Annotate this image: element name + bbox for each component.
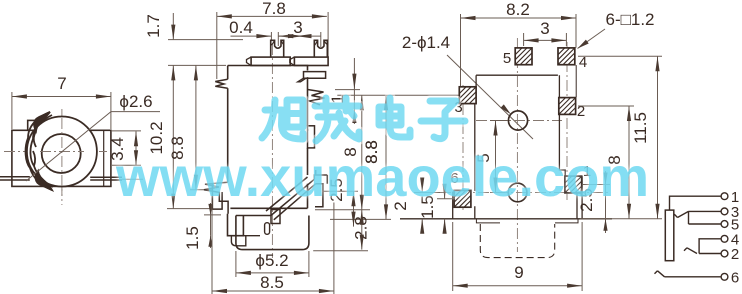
- bottom view body outline: [400, 65, 612, 223]
- svg-text:9: 9: [514, 263, 523, 282]
- svg-text:7: 7: [57, 74, 66, 93]
- watermark chinese characters: [262, 98, 465, 141]
- svg-text:0.4: 0.4: [229, 18, 253, 37]
- bottom view dimension 3: [524, 19, 567, 46]
- side view left retaining clip: [215, 79, 227, 88]
- side view right flange tab: [298, 72, 326, 82]
- side view lower-left clip: [204, 182, 228, 214]
- front view left solder lug: [0, 177, 30, 180]
- front view center lines: [4, 109, 107, 205]
- svg-text:8.5: 8.5: [260, 273, 284, 292]
- bottom view dimension 8.2: [461, 0, 577, 87]
- schematic pin 5 wire: [689, 211, 740, 233]
- mounting hole upper phi1.4: [508, 111, 527, 130]
- side view barrel center line: [271, 44, 273, 258]
- front view right solder lug: [90, 130, 143, 186]
- schematic pin 2 wire and switch contact: [684, 246, 739, 263]
- side view dimension phi5.2: [236, 251, 309, 277]
- side view dimension 1.5: [183, 203, 221, 250]
- side view dimension 10.2: [147, 65, 213, 208]
- side view right retaining clip: [308, 90, 325, 105]
- front view inner hole phi2.6: [42, 134, 81, 173]
- front view: dimension 7 (width): [12, 74, 111, 129]
- side view barrel (phi5.2 bushing): [228, 214, 309, 250]
- mounting hole lower phi1.4: [508, 183, 527, 202]
- svg-text:3: 3: [540, 19, 549, 38]
- schematic: jack sleeve body: [665, 210, 674, 261]
- side view dimension 3 (pin pitch): [278, 18, 321, 47]
- svg-text:2-ϕ1.4: 2-ϕ1.4: [402, 33, 450, 52]
- svg-text:6: 6: [731, 269, 739, 286]
- side view dimension 8.5: [212, 196, 334, 294]
- leader and label phi2.6: [26, 92, 160, 181]
- bottom view dimension 2: [391, 178, 440, 234]
- solder pad 4: [558, 48, 587, 71]
- bottom view dimension 9: [453, 222, 582, 291]
- side view right middle tab: [308, 126, 315, 148]
- label 2-phi1.4 with leader: [402, 33, 533, 139]
- schematic pin 3 wire and switch contact: [674, 204, 739, 221]
- schematic pin 6 wire: [655, 269, 740, 286]
- svg-text:ϕ2.6: ϕ2.6: [119, 92, 152, 111]
- side view slot mark: [265, 223, 270, 235]
- side view slanted contact arm: [266, 170, 327, 224]
- schematic pin 1 wire: [670, 189, 740, 210]
- side view top terminal pins: [247, 40, 329, 65]
- bottom view dimension 8.8 (left): [362, 140, 381, 164]
- svg-text:ϕ5.2: ϕ5.2: [255, 251, 288, 270]
- side view dimension 2.5: [322, 178, 358, 226]
- side view dimension 0.4: [229, 18, 296, 46]
- bottom view dimension 5 (between holes): [474, 121, 508, 193]
- solder pad 3: [454, 87, 476, 116]
- bottom view dimension 1.5: [418, 184, 455, 234]
- svg-text:8.2: 8.2: [506, 0, 530, 19]
- side view dimension 8.8: [168, 65, 212, 189]
- bottom view center lines: [440, 38, 610, 252]
- solder pad 1: [565, 163, 591, 193]
- svg-text:2: 2: [731, 246, 739, 263]
- bottom view dimension 11.5: [578, 56, 662, 219]
- svg-text:5: 5: [503, 50, 511, 67]
- label 6-sq1.2 with leader: [578, 10, 655, 49]
- side view dimension 8.8 (right): [330, 95, 391, 219]
- bottom view dimension 2.5 (right): [577, 171, 610, 233]
- svg-text:6-□1.2: 6-□1.2: [605, 10, 654, 29]
- side view dimension 1: [328, 58, 360, 124]
- bottom view dimension 8 (right): [578, 106, 634, 219]
- side view body outline: [228, 66, 308, 209]
- side view left bottom pin: [212, 184, 222, 209]
- front view spring clip (left of barrel): [26, 112, 53, 190]
- solder pad 5: [503, 48, 532, 67]
- solder pad 2: [559, 98, 585, 120]
- side view dimension 7.8: [217, 0, 328, 79]
- side view dimension 2.8: [313, 210, 370, 251]
- svg-text:11.5: 11.5: [631, 112, 650, 144]
- side view dimension 1.7: [144, 13, 243, 65]
- front view dimension 3.4: [108, 131, 141, 165]
- bottom view hidden barrel (dashed): [480, 224, 554, 258]
- side view dimension 8 (right): [315, 95, 459, 210]
- front view body plate: [12, 120, 111, 186]
- svg-text:7.8: 7.8: [262, 0, 286, 18]
- front view outer barrel circle: [27, 117, 97, 187]
- schematic pin 4 wire: [699, 231, 739, 253]
- svg-text:3: 3: [293, 18, 302, 37]
- watermark url text: [116, 144, 649, 209]
- solder pad 6: [450, 170, 471, 207]
- svg-text:1.5: 1.5: [183, 226, 202, 250]
- svg-text:1.7: 1.7: [144, 14, 163, 38]
